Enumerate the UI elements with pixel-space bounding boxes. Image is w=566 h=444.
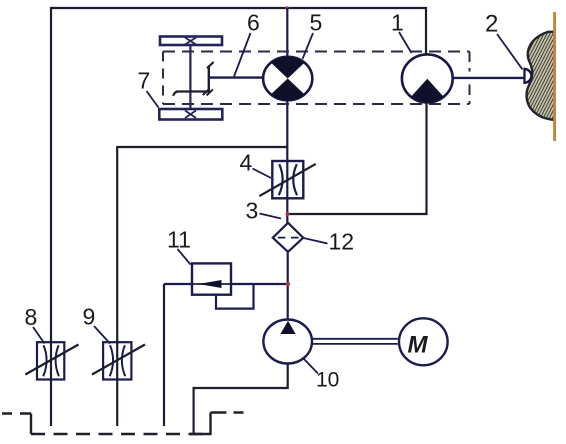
- wire relief valve line: [164, 283, 288, 285]
- valve 8 adjust arrow: [25, 345, 78, 375]
- tank dashed bottom last dash: [190, 433, 212, 435]
- svg-text:10: 10: [316, 369, 339, 392]
- leader line 2: [497, 34, 523, 70]
- valve 4 right arc: [293, 164, 297, 195]
- valve 9 adjust arrow: [92, 345, 145, 375]
- shaft double line: [312, 339, 398, 344]
- tank dashed outline right upper: [211, 411, 244, 413]
- valve 9 vertical line inside: [116, 342, 118, 379]
- nozzle at wall: [525, 69, 532, 83]
- wire top supply line: [51, 8, 426, 342]
- node top junction: [285, 6, 289, 10]
- svg-text:M: M: [408, 332, 429, 359]
- motor 5 bottom triangle: [271, 79, 305, 101]
- hydraulic motor 5: [263, 57, 312, 100]
- wire valve 8 drop line: [50, 380, 52, 427]
- leader line 6: [234, 33, 251, 77]
- svg-text:3: 3: [246, 198, 259, 224]
- tank dashed bottom line: [31, 433, 211, 435]
- svg-text:1: 1: [391, 10, 404, 36]
- wire pump 10 suction line: [194, 363, 288, 434]
- relief valve 11 arrow: [199, 280, 222, 288]
- enclosure dashed box right edge: [469, 52, 471, 105]
- svg-text:8: 8: [25, 304, 38, 330]
- wire relief valve drain: [163, 284, 165, 426]
- svg-text:12: 12: [329, 229, 355, 255]
- node relief junction: [286, 282, 290, 286]
- enclosure dashed box bottom edge: [163, 103, 470, 105]
- axle shaft: [189, 45, 191, 109]
- throttle valve 8 body: [37, 342, 64, 379]
- wheel bottom cross mark: [185, 111, 196, 119]
- enclosure dashed box top edge: [163, 51, 470, 53]
- load wall 2 hatched: [527, 32, 555, 120]
- svg-text:7: 7: [138, 68, 151, 94]
- relief valve 11 through line: [192, 283, 231, 285]
- svg-text:2: 2: [485, 11, 498, 38]
- valve 8 vertical line inside: [50, 342, 52, 379]
- valve 8 left arc: [43, 345, 46, 376]
- valve 4 left arc: [279, 164, 283, 195]
- svg-text:4: 4: [240, 150, 253, 176]
- svg-text:5: 5: [310, 10, 323, 36]
- throttle valve 4 body: [272, 161, 303, 198]
- wheel top cross mark: [185, 38, 196, 45]
- wire main vertical line lower: [287, 252, 289, 320]
- leader line 10: [303, 358, 319, 374]
- node 3 junction: [286, 212, 290, 216]
- wall boundary line: [553, 12, 556, 141]
- wire valve 9 drop line: [116, 380, 118, 427]
- filter 12 element dashes: [278, 237, 299, 239]
- tank step right: [209, 413, 211, 435]
- wire branch line to valve 9: [117, 147, 287, 342]
- wire pump 1 output line: [451, 77, 525, 79]
- transmission bar right ticks: [203, 89, 213, 96]
- leader line 5: [303, 33, 314, 59]
- leader line 8: [33, 327, 45, 344]
- electric motor M: [399, 318, 448, 365]
- leader line 9: [94, 326, 110, 344]
- transmission lever top tick: [207, 62, 214, 68]
- throttle valve 9 body: [103, 342, 131, 379]
- transmission lever vertical: [208, 67, 210, 93]
- wire main vertical line upper: [286, 8, 288, 223]
- svg-text:9: 9: [83, 304, 96, 330]
- svg-text:11: 11: [167, 227, 191, 253]
- wheel top (item 7): [160, 37, 222, 46]
- relief valve 11 body: [192, 263, 231, 294]
- leader line 4: [253, 169, 272, 179]
- wire relief valve pilot loop: [216, 284, 254, 309]
- leader line 11: [178, 249, 191, 265]
- transmission bar left tick: [173, 92, 177, 96]
- valve 8 right arc: [56, 345, 59, 376]
- valve 9 left arc: [110, 345, 113, 376]
- pump 1: [402, 54, 453, 102]
- leader line 12: [304, 238, 328, 244]
- pump 10 triangle: [280, 321, 295, 334]
- pump 1 bottom triangle: [411, 79, 444, 103]
- tank step left: [30, 414, 32, 435]
- pump 10: [263, 320, 312, 364]
- filter 12: [273, 223, 303, 252]
- tank dashed outline left upper: [2, 412, 31, 414]
- valve 9 right arc: [122, 345, 125, 376]
- leader line 3: [260, 214, 282, 219]
- leader line 7: [147, 91, 159, 108]
- mechanical link 6 to motor 5: [209, 76, 264, 78]
- wire return line from pump 1: [287, 102, 426, 214]
- valve 4 adjust arrow: [259, 164, 315, 196]
- transmission lower bar: [176, 90, 209, 92]
- wheel bottom (item 7): [159, 109, 222, 120]
- svg-text:6: 6: [247, 10, 260, 36]
- enclosure dashed box left edge: [162, 52, 164, 105]
- leader line 1: [399, 32, 412, 53]
- motor 5 top triangle: [271, 57, 305, 79]
